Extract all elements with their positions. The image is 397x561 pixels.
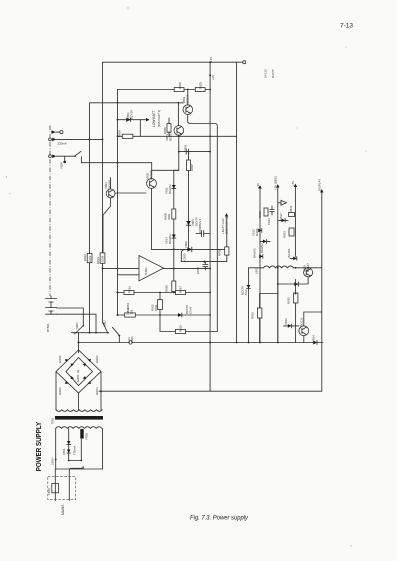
svg-text:BT801: BT801 [46,323,50,332]
node x210 [209,74,211,76]
resistor R821 [264,208,268,216]
diode V817 [282,219,286,223]
resistor R814 [125,313,136,317]
svg-text:GR04: GR04 [95,387,99,395]
svg-text:C10: C10 [244,289,248,295]
wire y331.5 [160,315,217,332]
diode V806 [186,221,191,225]
wire emitter rail y123.5 [188,114,218,331]
svg-text:10k: 10k [130,309,134,314]
svg-text:R807: R807 [190,164,194,171]
resistor R816 [124,290,134,294]
diode V810 zener [178,313,182,317]
svg-text:OA90: OA90 [255,228,259,236]
wire right edge x321.8 [321,190,323,391]
wire battery to switch [57,308,84,326]
diode V814 [172,235,176,239]
node junction dots [209,89,211,91]
wire y261.6 [181,256,227,262]
wire inner box top y89.5 [118,89,211,91]
diode V825 [294,282,298,286]
resistor R808 [172,209,176,219]
connector pin 2 [49,138,52,141]
transistor V803 [106,189,115,198]
wire battery center [50,296,52,314]
svg-text:POWER SUPPLY: POWER SUPPLY [34,422,43,471]
svg-text:R802: R802 [178,82,182,89]
svg-text:+9V: +9V [256,183,260,188]
node primary [55,459,57,461]
transistor V805 [147,179,157,189]
wire primary left [56,429,103,470]
bridge outer diamond [56,350,101,393]
svg-text:BC550: BC550 [108,180,112,189]
resistor R807 [187,160,191,171]
wire mains left [54,469,56,501]
wire base rail y102.8 [90,102,184,104]
svg-text:SY122: SY122 [264,69,268,78]
svg-text:100k: 100k [101,255,105,262]
svg-text:BAW62: BAW62 [168,184,172,194]
svg-text:GR03: GR03 [58,387,62,395]
mains dashed enclosure [48,477,76,500]
node op out [173,268,175,270]
svg-text:FS01: FS01 [47,488,51,495]
svg-text:Fig. 7.3. Power supply: Fig. 7.3. Power supply [190,515,249,522]
wire V805 collector down [151,188,153,249]
svg-text:BC546: BC546 [149,170,153,179]
resistor R806 [167,124,171,133]
resistor R802 [174,88,184,92]
svg-text:V809: V809 [184,241,188,248]
wire outer left edge [102,62,104,323]
svg-text:BAW62: BAW62 [260,243,264,253]
svg-text:C801: C801 [184,144,188,151]
svg-text:+5V (BBC): +5V (BBC) [274,176,278,190]
terminal DC input [56,131,60,133]
transistor V823 [299,326,309,336]
diode GR06 [88,381,91,384]
svg-text:F801: F801 [62,448,66,455]
wire x89.5 [89,103,91,333]
terminal +9V output [243,61,246,64]
wire x248.5 branch [248,268,250,343]
svg-text:T801: T801 [51,418,55,425]
diode V822 [288,324,292,328]
diode GR01 [65,359,68,362]
transistor V804 [174,126,184,136]
wire V823 [304,312,322,343]
diode V811 [172,185,176,189]
wire y151.6 [179,151,210,153]
svg-text:B2V4: B2V4 [198,219,202,226]
switch S800a [75,326,84,335]
fuse F802 [80,429,83,439]
svg-text:R806: R806 [163,127,167,134]
svg-text:IC801: IC801 [144,267,148,275]
wire long y136.3 [118,135,237,137]
wire vertical x210 [209,62,211,391]
diode GR07 [71,376,74,379]
svg-text:R812: R812 [83,254,87,261]
wire switch to y163 [82,157,152,163]
wire battery lower to bus [57,314,97,333]
svg-text:7-13: 7-13 [340,23,354,30]
diode V816 [263,240,267,244]
inductor L801 [264,266,294,268]
wire display rail arrow [320,189,323,192]
svg-text:R826: R826 [251,312,255,319]
svg-text:R817: R817 [179,286,183,293]
capacitor C814 [270,206,274,215]
wire R820 to y292.5 [173,292,175,293]
thermal diode 2 [67,450,71,453]
svg-text:BD136: BD136 [300,317,304,326]
resistor R819 [176,329,186,333]
node L/R [277,267,279,269]
fuse F803 [129,341,132,344]
wire switch bus y332.7 [72,332,109,334]
wire V803 base link [116,192,146,194]
node base rail [178,102,180,104]
wire +5V rail x295.4 [294,187,296,257]
op-amp IC801 [139,256,164,281]
svg-text:R813: R813 [96,257,100,264]
wire bridge right to transformer [100,372,102,411]
transistor V802 [183,105,193,115]
svg-text:GR02: GR02 [95,355,99,363]
svg-text:V822: V822 [284,318,288,325]
svg-text:1.6A: 1.6A [127,337,131,343]
resistor R826 [257,308,262,318]
wire +9V rail x260 [259,188,261,343]
wire main bus y342.5 [79,342,324,344]
svg-text:R818: R818 [218,249,222,256]
fuse FS01 [52,484,59,493]
resistor R815 [159,293,161,316]
svg-text:4k99: 4k99 [167,213,171,220]
svg-text:DISPLAY: DISPLAY [318,179,322,191]
diode V818 [259,255,263,259]
wire bottom return y391.2 [99,390,322,392]
svg-text:R819: R819 [179,325,183,332]
node feedback taps [117,292,119,294]
primary winding [56,427,102,429]
svg-text:V824: V824 [312,335,316,342]
wire V820 emitter row [278,277,308,284]
wire to switch y156 [56,155,74,157]
wire top bus +9V [103,61,243,63]
svg-text:GR01..04: GR01..04 [76,369,80,382]
lamp indicator [64,156,66,160]
svg-text:R823: R823 [283,231,287,238]
svg-text:100k: 100k [154,304,158,311]
svg-text:R4779: R4779 [271,69,275,78]
svg-text:V829: V829 [60,162,64,169]
diode GR02 [88,359,91,362]
secondary winding [56,410,102,412]
diode GR08 [83,376,86,379]
wire op inputs [103,268,140,274]
wire y315 [118,314,210,316]
switch S801 pole 2 [112,327,119,342]
svg-text:220V~: 220V~ [51,456,55,465]
node x89.5 y269 [102,268,104,270]
svg-text:[DIS PART 2]: [DIS PART 2] [225,217,229,234]
wire y249.4 [152,248,227,250]
node switch bus [89,332,91,334]
node y139 [89,139,91,141]
svg-text:LOW BATT: LOW BATT [152,110,156,127]
capacitor C810 [203,262,208,270]
wire x295.6 [295,279,297,342]
battery BT801 cells [46,299,57,315]
diode V821 zener [247,285,251,289]
wire x188.5 [188,152,190,250]
wire bridge left to transformer [55,372,57,411]
diode V824 on bus [313,341,317,345]
svg-text:220mA: 220mA [58,142,67,146]
wire V803 vertical [103,178,111,253]
capacitor C808 [196,233,210,235]
resistor R813 [100,253,105,263]
svg-text:C808: C808 [198,226,202,233]
wire mains right elbow [69,467,83,501]
svg-text:V817: V817 [279,213,283,220]
svg-text:C5V6: C5V6 [189,306,193,314]
thermal diode 1 [67,441,71,444]
svg-text:GR01: GR01 [58,355,62,363]
diode V819 [293,257,297,261]
svg-text:BAW62: BAW62 [253,248,257,258]
wire inner left edge x117.5 [117,90,119,316]
diode V815 [258,229,262,233]
svg-text:T50mA: T50mA [73,446,77,455]
wire x173.8 [174,170,179,281]
wire x278 mid [277,268,279,343]
svg-text:+5V: +5V [291,181,295,186]
wire +5V rail x277.8 [277,187,279,343]
bridge inner diamond [66,358,93,386]
svg-text:[DIS PART 2]: [DIS PART 2] [157,110,161,127]
node bus start [78,342,80,344]
wire DC line y139 [56,138,102,140]
resistor R818 [225,247,229,255]
wire bridge bottom centre tap [78,393,80,410]
wire x259.6 [260,294,278,343]
svg-text:+9V: +9V [211,75,215,80]
transistor V820 [304,268,313,277]
wire collector Q interlink [177,103,179,126]
svg-text:R803: R803 [199,82,203,89]
diode GR03 [71,364,74,367]
resistor R812 [87,254,92,263]
svg-text:100k: 100k [88,255,92,262]
wire feedback y292.5 [118,292,210,294]
wire batt cap arrow [226,217,228,247]
diode V809 [187,247,191,251]
svg-text:BZX79: BZX79 [130,110,134,119]
wire vertical x236.6 [236,62,238,342]
svg-text:R820: R820 [165,285,169,292]
svg-text:C809: C809 [183,253,187,260]
wire emitter elbow y170.3 [152,152,179,171]
svg-text:C814: C814 [267,218,271,225]
svg-text:BA482: BA482 [287,248,291,257]
capacitor C809 loop [181,249,185,261]
svg-text:+9V: +9V [209,57,213,62]
svg-text:MAINS: MAINS [61,504,65,515]
svg-text:S801: S801 [103,320,107,327]
svg-text:R822: R822 [289,205,293,212]
resistor R803 [195,88,205,92]
svg-text:C810: C810 [196,267,200,274]
resistor R820 [172,281,176,292]
svg-text:R825: R825 [287,297,291,304]
svg-text:S801: S801 [75,322,79,329]
diode GR05 [65,381,68,384]
svg-text:F802: F802 [85,433,89,440]
switch S801 contact [75,151,82,156]
wire V802 collector [187,90,189,105]
diode GR04 [83,364,86,367]
low batt arrow [139,120,141,137]
resistor R822 [289,213,295,217]
resistor R817 [176,290,186,294]
wire V804 emitter down [178,135,180,151]
connector pin 1 arrow [52,130,56,134]
op-amp output wire [164,268,211,270]
svg-text:R816: R816 [128,286,132,293]
wire bridge top feed [78,333,80,353]
primary internal wire [69,429,82,461]
svg-text:R821: R821 [258,211,262,218]
wire inductor row [249,267,322,269]
resistor R809 [122,134,133,138]
wire V805 to base [151,163,153,179]
connector pin 3 [49,155,52,158]
resistor R823 [289,228,294,236]
node bus junction [209,61,211,63]
switch S800b [104,324,109,334]
svg-text:BC546: BC546 [186,94,190,103]
diode V801 [118,119,147,121]
flag tap [278,200,287,205]
node bus junctions [259,342,261,344]
transformer core [55,416,103,420]
chassis dash-dot boundary [49,126,51,297]
node return tap [100,390,102,392]
resistor R825 [293,293,298,303]
capacitor C801 [186,149,188,154]
svg-text:BAW62: BAW62 [168,234,172,244]
